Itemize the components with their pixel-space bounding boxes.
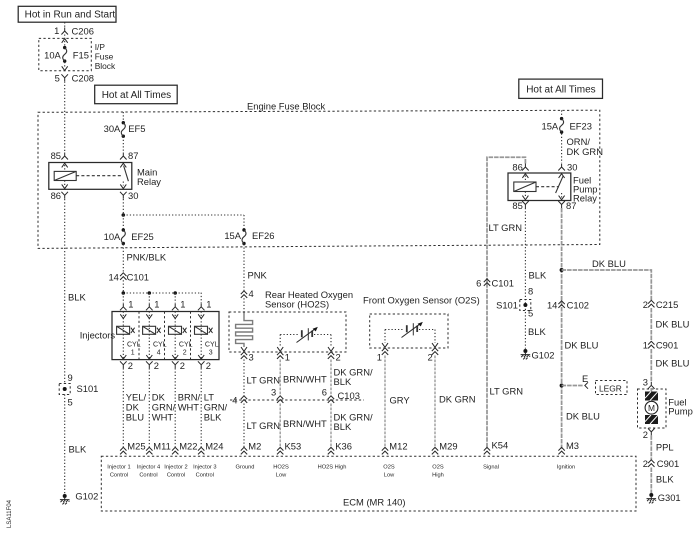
C103 pin 3 (271, 387, 283, 403)
svg-text:5: 5 (55, 72, 60, 83)
svg-text:CYL: CYL (179, 342, 193, 349)
svg-text:WHT: WHT (178, 401, 200, 412)
I/P fuse block box (39, 38, 92, 70)
wire BLK to G301 (651, 468, 674, 494)
wire pin2 to C103, DK GRN/BLK (331, 360, 373, 397)
svg-text:EF25: EF25 (131, 231, 153, 242)
svg-text:1: 1 (131, 350, 135, 357)
wire O2S pin2 to M29, DK GRN (435, 356, 475, 449)
fuel pump relay pin 87 connector (558, 200, 576, 211)
node junction to LEGR (560, 384, 564, 388)
svg-text:Control: Control (167, 472, 185, 478)
svg-text:3: 3 (271, 387, 276, 398)
svg-text:M12: M12 (389, 441, 407, 452)
svg-text:HO2S High: HO2S High (318, 464, 347, 470)
fuse F15 10A (44, 46, 89, 63)
svg-text:LEGR: LEGR (599, 383, 622, 393)
svg-text:Hot in Run and Start: Hot in Run and Start (25, 10, 116, 21)
svg-text:CYL: CYL (205, 342, 219, 349)
main relay pin 87 connector (120, 150, 138, 161)
svg-text:M29: M29 (439, 441, 457, 452)
svg-text:1: 1 (643, 340, 648, 351)
svg-text:C101: C101 (492, 277, 514, 288)
svg-text:86: 86 (512, 162, 522, 173)
svg-text:High: High (432, 472, 444, 478)
svg-text:EF23: EF23 (570, 120, 592, 131)
svg-text:O2S: O2S (383, 464, 395, 470)
main relay pin 30 connector (120, 190, 138, 201)
svg-text:DK BLU: DK BLU (592, 258, 626, 269)
svg-text:Ignition: Ignition (557, 464, 575, 470)
fuel pump relay pin 30 connector (558, 162, 577, 173)
ECM box (101, 456, 636, 511)
svg-text:85: 85 (512, 200, 522, 211)
svg-text:DK BLU: DK BLU (656, 319, 690, 330)
label I/P Fuse Block (95, 42, 116, 71)
svg-text:86: 86 (51, 190, 61, 201)
svg-text:Injector 4: Injector 4 (137, 464, 160, 470)
connector M2 at ECM (241, 441, 262, 455)
wire loop from fuel pump relay pin 86 up and left, LT GRN (487, 157, 525, 449)
main relay pin 86 connector (51, 190, 68, 201)
svg-text:C208: C208 (72, 72, 94, 83)
ECM pin function labels (107, 464, 575, 478)
wire stub from fuse (64, 62, 66, 67)
label box "Hot at All Times" (left) (95, 85, 178, 104)
svg-text:6: 6 (476, 277, 481, 288)
svg-text:LSA11F04: LSA11F04 (7, 499, 13, 528)
svg-text:DK BLU: DK BLU (656, 358, 690, 369)
svg-text:LT GRN: LT GRN (247, 375, 281, 386)
svg-text:2: 2 (427, 351, 432, 362)
HO2S pin 1 connector (277, 351, 290, 362)
svg-text:Low: Low (276, 472, 287, 478)
svg-text:M25: M25 (127, 441, 145, 452)
wire branch to EF26 (123, 214, 244, 216)
wire DK BLU (651, 308, 689, 342)
svg-text:C206: C206 (72, 25, 94, 36)
svg-text:PNK: PNK (248, 269, 268, 280)
svg-text:87: 87 (566, 200, 576, 211)
svg-text:5: 5 (68, 396, 73, 407)
wire O2S pin1 to M12, GRY (385, 356, 410, 449)
svg-text:M24: M24 (205, 441, 223, 452)
connector M29 at ECM (432, 441, 458, 455)
node junction DK BLU branch to pump (560, 268, 564, 272)
svg-text:87: 87 (128, 150, 138, 161)
wire injector3 to M24, LT GRN/BLK (201, 368, 227, 449)
svg-text:30A: 30A (104, 123, 121, 134)
svg-text:Control: Control (110, 472, 128, 478)
wire pin 86 down (BLK) (64, 199, 66, 383)
fuel pump relay pin 85 connector (512, 200, 528, 211)
motor Fuel Pump (638, 388, 693, 428)
wire C101 to injector feed rail (122, 280, 124, 293)
svg-text:C901: C901 (656, 340, 678, 351)
splice S101 (right) (496, 286, 533, 319)
injector CYL 1 (117, 312, 141, 360)
svg-text:M2: M2 (248, 441, 261, 452)
svg-text:3: 3 (249, 351, 254, 362)
fuel pump pin 2 connector (643, 428, 655, 439)
O2S sensing element (variable battery) (382, 322, 438, 347)
wire from Hot in Run box to C206 (64, 22, 66, 27)
node junction at EF25 branch (122, 213, 126, 217)
wire injector1 to M25, YEL/DK BLU (123, 368, 146, 449)
connector K53 at ECM (277, 441, 301, 455)
svg-text:BLK: BLK (334, 421, 352, 432)
wire EF23 from top edge (561, 110, 563, 116)
svg-text:F15: F15 (73, 50, 89, 61)
wire C206 to I/P fuse block (64, 35, 66, 39)
wire EF26 branch down (243, 215, 245, 229)
svg-text:BRN/WHT: BRN/WHT (283, 418, 327, 429)
svg-text:1: 1 (54, 25, 59, 36)
connector M24 at ECM (198, 441, 223, 455)
svg-text:DK GRN: DK GRN (567, 146, 603, 157)
svg-text:1: 1 (128, 298, 133, 309)
svg-text:2: 2 (643, 458, 648, 469)
svg-text:PPL: PPL (656, 441, 674, 452)
connector C103 line (230, 390, 364, 401)
svg-text:C215: C215 (656, 299, 678, 310)
svg-text:BRN/WHT: BRN/WHT (283, 373, 327, 384)
connector M22 at ECM (172, 441, 197, 455)
heater element (236, 313, 253, 352)
svg-text:G102: G102 (75, 490, 98, 501)
LEGR box (596, 381, 628, 395)
svg-text:E: E (582, 373, 588, 384)
HO2S pin 2 connector (328, 351, 341, 362)
node junction injector 1 (122, 291, 126, 295)
O2S pin 2 connector (427, 348, 438, 363)
svg-text:9: 9 (68, 372, 73, 383)
wire pin 30 to junction (122, 199, 124, 215)
connector C101 pin 6 on LT GRN wire (476, 277, 514, 288)
svg-text:GRY: GRY (390, 394, 411, 405)
wire into HO2S box (243, 298, 245, 312)
svg-text:2: 2 (154, 360, 159, 371)
svg-text:3: 3 (209, 350, 213, 357)
svg-text:PNK/BLK: PNK/BLK (127, 251, 167, 262)
svg-text:LT GRN: LT GRN (489, 222, 523, 233)
wire junction to EF25 (122, 215, 124, 229)
svg-text:Control: Control (196, 472, 214, 478)
connector C901 pin 1 (643, 340, 679, 351)
svg-text:14: 14 (547, 299, 557, 310)
connector M3 at ECM (558, 440, 579, 454)
svg-text:4: 4 (249, 288, 254, 299)
wire injector4 to M11, DK GRN/WHT (149, 368, 175, 449)
svg-text:Hot at All Times: Hot at All Times (526, 84, 595, 95)
svg-text:Low: Low (384, 472, 395, 478)
wire C103 to M2, LT GRN (244, 404, 280, 449)
O2S pin 1 connector (377, 348, 388, 363)
svg-text:C103: C103 (338, 390, 360, 401)
fuse EF26 15A (224, 228, 274, 245)
splice S101 (left) (59, 372, 98, 407)
svg-text:WHT: WHT (152, 411, 174, 422)
svg-text:30: 30 (567, 162, 577, 173)
wire PPL (651, 435, 673, 460)
svg-text:DK BLU: DK BLU (565, 340, 599, 351)
wire pin 87 down DK BLU (561, 208, 563, 449)
injector CYL 2 (169, 312, 193, 360)
fuel pump relay pin 86 connector (512, 162, 528, 173)
wire C103 to K36, DK GRN/BLK (331, 404, 373, 449)
connector M25 at ECM (120, 441, 145, 455)
svg-text:I/P: I/P (95, 42, 106, 52)
exit arrow from fuse block (62, 66, 68, 70)
relay Fuel Pump Relay (508, 173, 598, 203)
svg-text:2: 2 (180, 360, 185, 371)
svg-text:Sensor (HO2S): Sensor (HO2S) (265, 299, 329, 310)
wire EF26 to HO2S pin 4, PNK (244, 244, 268, 291)
svg-text:1: 1 (377, 351, 382, 362)
svg-text:DK GRN: DK GRN (439, 393, 475, 404)
svg-text:Front Oxygen Sensor (O2S): Front Oxygen Sensor (O2S) (363, 295, 480, 306)
connector HO2S pin 4 (241, 288, 254, 299)
svg-text:LT GRN: LT GRN (247, 420, 281, 431)
injectors box (112, 312, 219, 360)
svg-text:Injector 2: Injector 2 (164, 464, 187, 470)
svg-text:85: 85 (51, 150, 61, 161)
connector M11 at ECM (146, 441, 171, 455)
main relay pin 85 connector (51, 150, 68, 161)
svg-text:K54: K54 (492, 440, 509, 451)
svg-text:C901: C901 (657, 458, 679, 469)
svg-text:2: 2 (206, 360, 211, 371)
svg-text:M: M (648, 403, 655, 413)
svg-text:BLK: BLK (68, 292, 86, 303)
injector pin 1 connectors (120, 298, 211, 310)
connector K54 at ECM (484, 440, 508, 455)
fuse EF25 10A (104, 228, 154, 245)
svg-text:Control: Control (139, 472, 157, 478)
svg-text:4: 4 (157, 350, 161, 357)
connector C101 pin 14 (108, 272, 149, 283)
connector C901 pin 2 (643, 458, 679, 469)
svg-text:Injector 3: Injector 3 (193, 464, 216, 470)
svg-text:Relay: Relay (573, 192, 597, 203)
fuse EF5 30A (104, 121, 146, 138)
connector C102 pin 14 (547, 299, 589, 310)
svg-text:BLK: BLK (656, 474, 674, 485)
svg-text:DK BLU: DK BLU (566, 411, 600, 422)
svg-text:S101: S101 (496, 299, 518, 310)
svg-text:Signal: Signal (483, 464, 499, 470)
wire C208 down to main relay pin 85 (64, 82, 66, 153)
wire top edge to fuse EF5 (122, 112, 124, 121)
svg-text:10A: 10A (44, 50, 61, 61)
wire C103 to K53, BRN/WHT (280, 404, 327, 449)
wire DK BLU (651, 349, 689, 381)
svg-text:M22: M22 (179, 441, 197, 452)
svg-text:15A: 15A (542, 120, 559, 131)
HO2S pin 3 connector (241, 351, 254, 362)
svg-text:8: 8 (528, 286, 533, 297)
node junction injector 4 (148, 291, 152, 295)
svg-text:10A: 10A (104, 231, 121, 242)
svg-text:2: 2 (643, 429, 648, 440)
fuel pump pin 3 connector (643, 376, 655, 389)
wire pin3 to C103, LT GRN (244, 360, 280, 397)
ground G301 (647, 492, 681, 503)
svg-text:14: 14 (108, 272, 118, 283)
svg-text:BLK: BLK (334, 376, 352, 387)
svg-text:M3: M3 (566, 440, 579, 451)
svg-text:1: 1 (206, 298, 211, 309)
wire pin 85 down BLK to G102 (524, 208, 526, 349)
svg-text:15A: 15A (224, 230, 241, 241)
wire stub to fuse F15 (64, 41, 66, 46)
svg-text:EF26: EF26 (252, 230, 274, 241)
svg-text:CYL: CYL (153, 342, 167, 349)
svg-text:2: 2 (183, 350, 187, 357)
svg-text:CYL: CYL (127, 342, 141, 349)
svg-text:2: 2 (643, 299, 648, 310)
Engine Fuse Block dashed box (38, 101, 600, 249)
injector CYL 4 (143, 312, 167, 360)
svg-text:Block: Block (95, 61, 116, 71)
svg-text:K36: K36 (335, 441, 352, 452)
svg-text:BLU: BLU (126, 411, 144, 422)
HO2S sensor box (229, 312, 346, 352)
label box "Hot at All Times" (right) (519, 79, 603, 98)
svg-text:LT GRN: LT GRN (490, 386, 524, 397)
svg-text:G301: G301 (658, 492, 681, 503)
C103 pin 6 (322, 387, 334, 403)
svg-text:G102: G102 (532, 349, 555, 360)
wire S101 to G102 BLK (65, 395, 87, 495)
svg-text:3: 3 (643, 376, 648, 387)
svg-text:HO2S: HO2S (273, 464, 289, 470)
svg-text:Engine Fuse Block: Engine Fuse Block (247, 101, 325, 112)
svg-text:C102: C102 (567, 299, 589, 310)
injector pin 2 connectors (120, 360, 211, 371)
wire DK BLU horizontal to fuel pump column (562, 258, 652, 301)
relay Main Relay (49, 163, 161, 190)
svg-text:EF5: EF5 (128, 123, 145, 134)
svg-text:O2S: O2S (432, 464, 444, 470)
svg-text:2: 2 (336, 351, 341, 362)
svg-text:4: 4 (232, 394, 237, 405)
svg-text:Relay: Relay (137, 176, 161, 187)
connector C206 pin 1 (54, 25, 94, 37)
wire EF5 to main relay pin 87 (122, 137, 124, 153)
svg-text:Hot at All Times: Hot at All Times (102, 90, 171, 101)
connector M12 at ECM (382, 441, 408, 455)
HO2S sensing element (variable battery) (277, 327, 334, 351)
svg-text:M11: M11 (153, 441, 171, 452)
wire branch to LEGR pin E (562, 373, 589, 389)
svg-text:S101: S101 (77, 383, 99, 394)
svg-text:6: 6 (322, 387, 327, 398)
injector CYL 3 (195, 312, 219, 360)
entry arrow into fuse block (62, 39, 68, 43)
svg-text:BLK: BLK (69, 443, 87, 454)
connector C208 pin 5 (55, 72, 94, 83)
svg-text:2: 2 (128, 360, 133, 371)
svg-text:ECM (MR 140): ECM (MR 140) (343, 497, 406, 508)
svg-text:BLK: BLK (529, 270, 547, 281)
wire below EF25 PNK/BLK to C101 (123, 244, 167, 273)
svg-text:BLK: BLK (528, 326, 546, 337)
wire pin1 to C103, BRN/WHT (280, 360, 327, 397)
node junction injector 2 (173, 291, 177, 295)
svg-text:Injectors: Injectors (80, 330, 116, 341)
ground G102 (right) (521, 349, 555, 360)
svg-text:Injector 1: Injector 1 (107, 464, 130, 470)
svg-text:C101: C101 (127, 272, 149, 283)
svg-text:30: 30 (128, 190, 138, 201)
O2S sensor box (370, 314, 448, 348)
svg-text:Pump: Pump (668, 406, 693, 417)
wire EF23 to fuel pump relay pin 30, ORN/DK GRN (562, 134, 603, 164)
C103 pin 4 (232, 394, 247, 405)
connector K36 at ECM (328, 441, 352, 455)
svg-text:1: 1 (154, 298, 159, 309)
wire injector2 to M22, BRN/WHT (175, 368, 200, 449)
connector C215 pin 2 (643, 299, 679, 310)
ground G102 (left) (60, 490, 98, 504)
svg-text:BLK: BLK (204, 411, 222, 422)
injector feed rail wire (123, 292, 201, 294)
svg-text:1: 1 (180, 298, 185, 309)
label box "Hot in Run and Start" (18, 6, 116, 22)
svg-text:5: 5 (528, 308, 533, 319)
svg-text:K53: K53 (285, 441, 302, 452)
wire drops to injector pins (123, 293, 201, 303)
fuse EF23 15A (542, 117, 592, 134)
label Rear Heated Oxygen Sensor (HO2S) (265, 289, 353, 310)
svg-text:Ground: Ground (236, 464, 255, 470)
svg-text:1: 1 (285, 351, 290, 362)
